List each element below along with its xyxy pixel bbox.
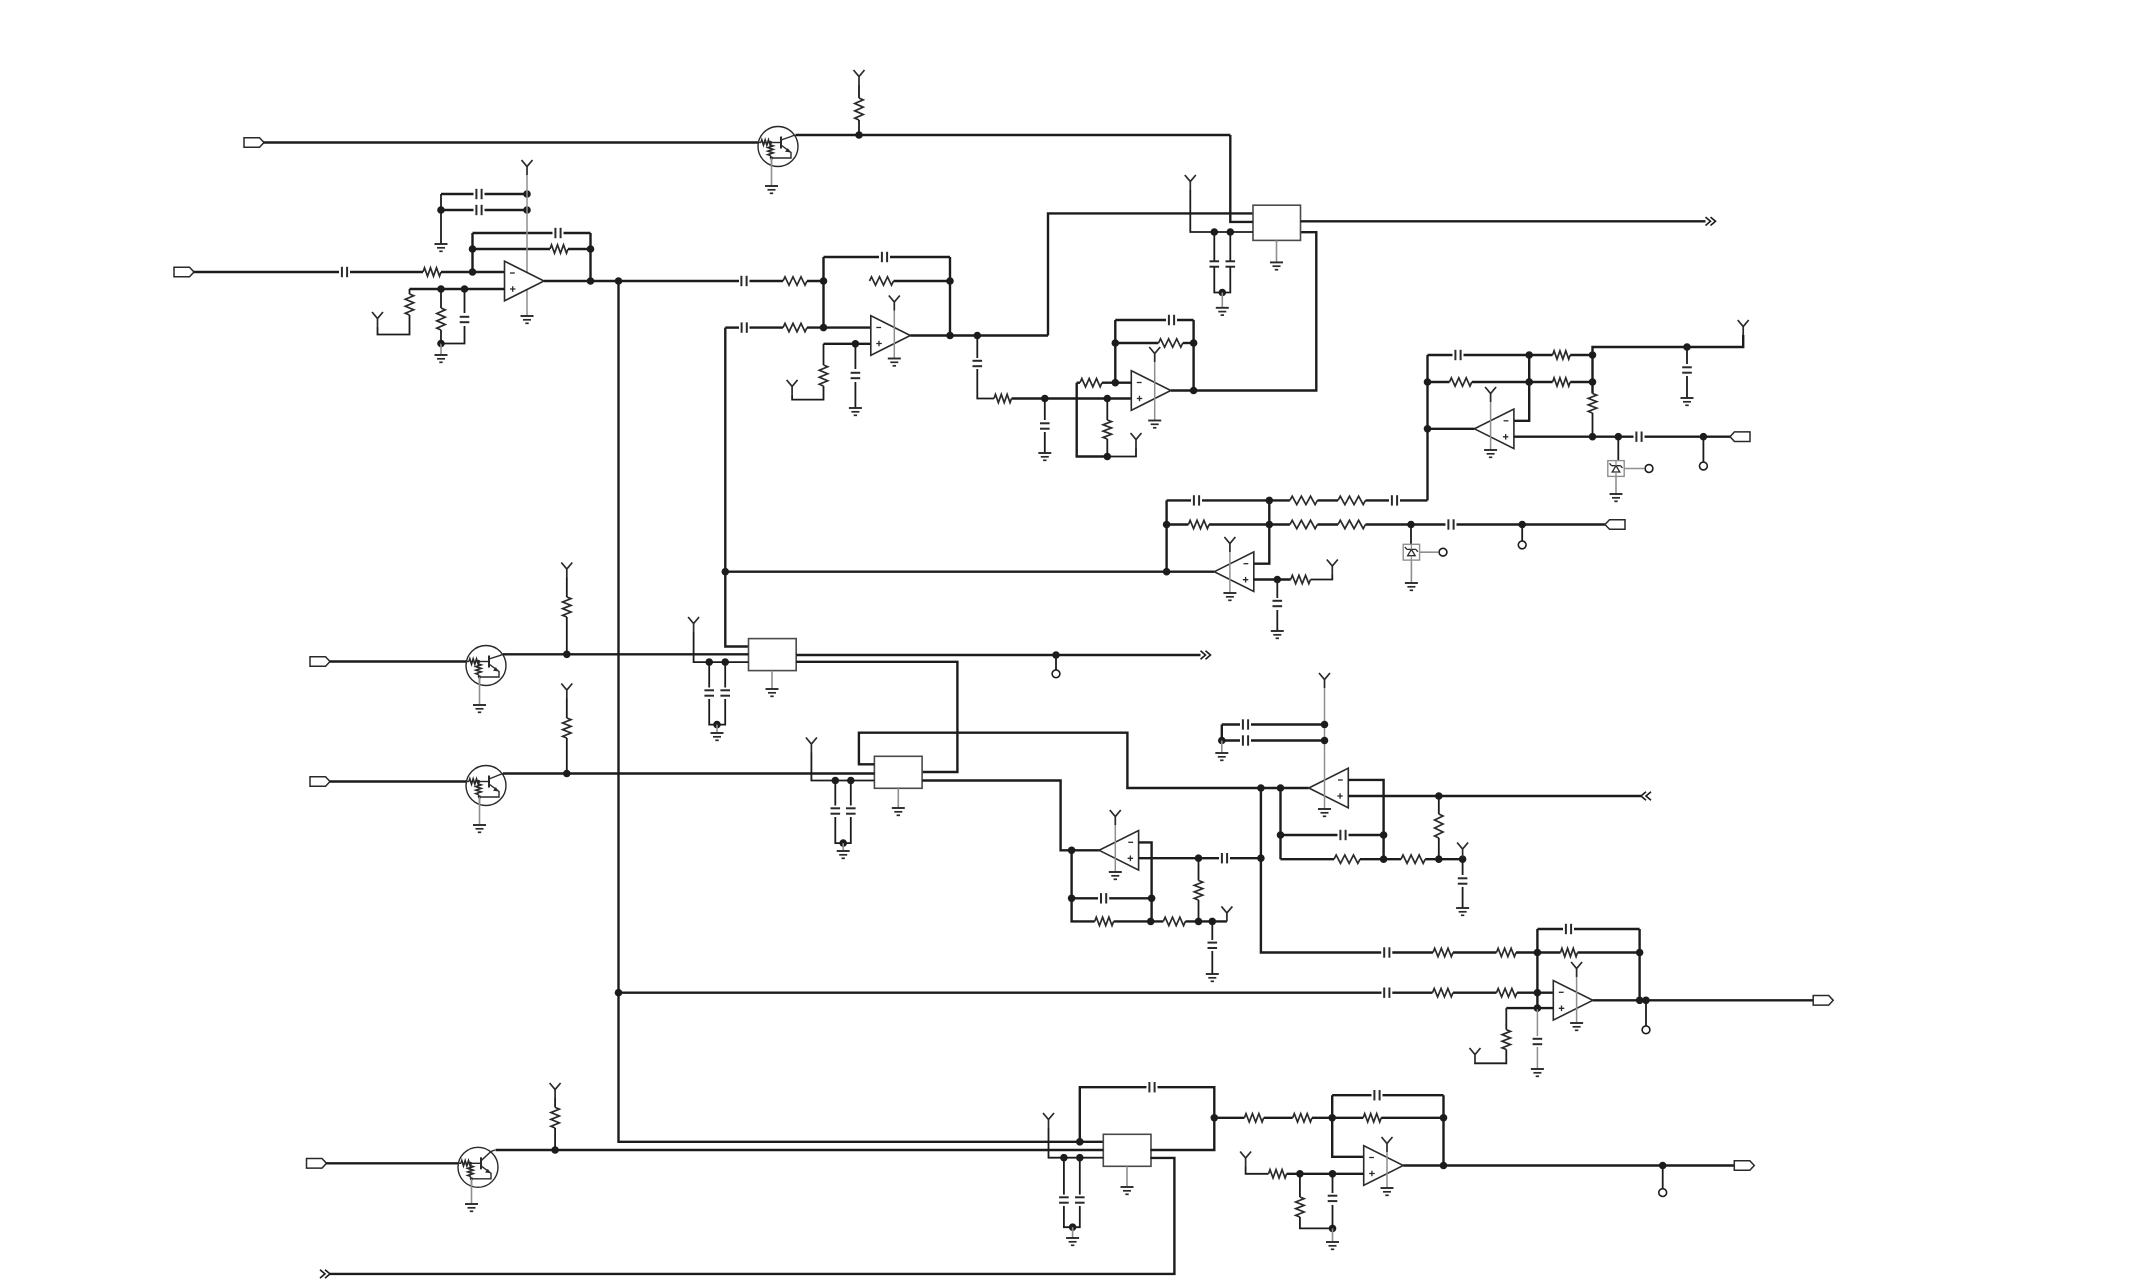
wire C24 to bus	[1230, 857, 1261, 859]
U6 output column down	[1279, 788, 1281, 859]
op-amp U7 (left-facing)	[1099, 831, 1139, 871]
ground D1	[1610, 493, 1623, 495]
wire C6 to R6	[750, 280, 784, 282]
riser from Q1 rail to IC1 pin2	[1230, 135, 1252, 222]
wire Q1 emitter to ground	[771, 158, 773, 186]
U2 plus row	[824, 343, 871, 345]
resistor R27 row	[1384, 858, 1401, 860]
power Y22 column U8	[1571, 962, 1582, 977]
wire J1 to Q1 base	[264, 141, 759, 143]
feedback capacitor C29 row	[1281, 834, 1338, 836]
minus feedback column stage2	[822, 257, 824, 328]
ground C30	[1456, 907, 1469, 909]
node U1 minus	[469, 268, 477, 276]
resistor R2 (series)	[423, 268, 441, 276]
row5 capacitor C18	[1447, 519, 1449, 529]
bias resistor R11 column	[1106, 399, 1108, 421]
op-amp U3	[1131, 371, 1171, 411]
wire C18 to connector J4	[1457, 523, 1606, 525]
U6 plus row to off-page	[1348, 795, 1641, 797]
feedback capacitor C11 row	[1115, 319, 1166, 321]
row4 resistor R16	[1338, 496, 1366, 504]
output column stage9	[1442, 1095, 1444, 1165]
bias capacitor C26 column	[1211, 921, 1213, 940]
row5 resistor R19	[1338, 520, 1366, 528]
power Y23 above R35	[550, 1083, 561, 1098]
ground U3 power	[1148, 420, 1161, 422]
feedback resistor row R3	[473, 248, 551, 250]
wire Y13 to R21	[566, 578, 568, 598]
decoupling capacitor C22	[834, 781, 836, 806]
row4 capacitor C17	[1391, 495, 1393, 505]
connector J7 (output)	[1813, 996, 1833, 1006]
stage5 minus column	[1254, 500, 1270, 563]
U7 minus path	[1139, 842, 1152, 898]
wire D2 to ground	[1410, 560, 1412, 583]
long column U6 out to row M	[1261, 788, 1381, 953]
ground U1 power	[521, 315, 534, 317]
wire Q4 emitter to ground	[471, 1179, 473, 1204]
test point circle D1	[1645, 465, 1653, 473]
ground Q4	[465, 1203, 478, 1205]
decoupling capacitor C36	[1079, 1158, 1081, 1195]
row5 resistor R17	[1167, 523, 1189, 525]
test point column U8	[1645, 1000, 1647, 1025]
row N resistor R32	[1433, 989, 1454, 997]
IC3 box	[874, 756, 922, 788]
row4 resistor R15	[1290, 496, 1318, 504]
wire J6 to Q3 base	[330, 780, 467, 782]
resistor R14 row	[1529, 381, 1552, 383]
riser to IC1 input	[1048, 213, 1253, 335]
bias resistor R40 column	[1299, 1174, 1301, 1197]
bus IC2 pinA from stage2 minus	[725, 572, 748, 647]
test point column U9	[1662, 1166, 1664, 1189]
minus column stage4	[1514, 355, 1529, 421]
row M capacitor C31	[1383, 947, 1385, 957]
bias resistor R9 column	[823, 344, 825, 365]
power Y14 to IC2 supply	[688, 617, 699, 632]
feedback capacitor C38 row stage9	[1332, 1094, 1371, 1096]
wire caps to ground IC4	[1072, 1227, 1074, 1238]
resistor R1 (pull-up)	[855, 98, 863, 120]
row resistor R36	[1214, 1117, 1244, 1119]
column cap C34 to ground	[1536, 1008, 1538, 1036]
resistor R6	[783, 277, 807, 285]
feedback capacitor row C2	[473, 232, 553, 234]
wire R1 to rail	[858, 120, 860, 135]
supply caps C27 C28 rows	[1222, 723, 1240, 725]
wire minus node up to feedback	[471, 233, 473, 272]
row N resistor R33	[1497, 989, 1518, 997]
transistor Q2 (digital npn)	[466, 646, 506, 686]
IC2 box	[749, 639, 797, 671]
power Y16 to IC3 supply	[806, 738, 817, 753]
ground C35/C36	[1066, 1237, 1079, 1239]
U4 output column	[1428, 428, 1475, 430]
IC3 feedback loop to U6 output	[859, 733, 1309, 788]
resistor R10	[994, 394, 1012, 402]
res row stage4	[1428, 381, 1450, 383]
wire R6 to node	[807, 280, 824, 282]
power Y21 (vref)	[1470, 1048, 1481, 1063]
connector J5 (input 3)	[310, 657, 330, 667]
ground U2 power	[888, 358, 901, 360]
bias capacitor C30 column	[1462, 859, 1464, 875]
bias resistor R39	[1269, 1170, 1287, 1178]
connector J1 (top-left input)	[244, 138, 264, 148]
row M resistor R30	[1497, 948, 1517, 956]
op-amp U4 (left-facing)	[1474, 409, 1514, 449]
decoupling capacitor C20	[708, 662, 710, 687]
wire Q3 emitter to ground	[479, 797, 481, 825]
long bus from stage5 output (vertical)	[724, 328, 726, 572]
wire D2 to test point	[1420, 551, 1438, 553]
row4 capacitor C16	[1167, 499, 1191, 501]
U2 output wire	[910, 334, 1048, 336]
link capacitor C9 column	[976, 336, 978, 359]
resistor R13 row	[1529, 354, 1552, 356]
wire J5 to Q2 base	[330, 660, 467, 662]
ground Q2	[473, 704, 486, 706]
power Y20 (vref)	[1457, 843, 1468, 858]
wire caps to ground IC3	[842, 843, 844, 851]
output column stage2	[949, 257, 951, 336]
wire R35 to rail	[554, 1128, 556, 1150]
connector J8 (input 5)	[307, 1159, 327, 1169]
bias capacitor C8 column	[854, 344, 856, 369]
IC1 output wire to off-page	[1301, 220, 1706, 222]
feedback capacitor C7 row	[824, 256, 880, 258]
capacitor C24 (series)	[1221, 853, 1223, 863]
feedback resistor R12 row	[1115, 342, 1158, 344]
test point circle U9	[1659, 1189, 1667, 1197]
ground U8 power	[1570, 1022, 1583, 1024]
left column caps to ground	[1221, 725, 1223, 741]
ground Q3	[473, 824, 486, 826]
wire C1 to R2	[350, 271, 423, 273]
bias capacitor C39 column	[1332, 1174, 1334, 1193]
U6 minus path	[1348, 780, 1383, 859]
power Y8 to IC1 supply rail	[1185, 175, 1196, 190]
IC3 bottom ground stub	[897, 788, 899, 808]
minus column stage9	[1332, 1095, 1364, 1157]
U8 output wire to connector	[1593, 999, 1813, 1001]
IC2 output A to off-page	[796, 654, 1200, 656]
U1 output wire to stage2	[544, 280, 739, 282]
op-amp U9	[1364, 1146, 1404, 1186]
ground C27/C28	[1215, 752, 1228, 754]
output column stage8	[1638, 929, 1640, 1000]
ground D2	[1405, 582, 1418, 584]
decoupling capacitor C21	[724, 662, 726, 687]
row resistor R37	[1293, 1114, 1312, 1122]
U7 plus row	[1139, 857, 1219, 859]
resistor R8	[783, 323, 807, 331]
vref column stage4	[1591, 355, 1593, 394]
power Y5 (vref)	[787, 380, 798, 395]
op-amp U6 (left-facing)	[1309, 768, 1349, 808]
power Y24 to IC4 supply	[1043, 1113, 1054, 1128]
decoupling capacitor C13 column	[1229, 232, 1231, 261]
IC4 bottom ground stub	[1126, 1166, 1128, 1187]
ground C26	[1206, 973, 1219, 975]
IC4 box	[1103, 1134, 1151, 1166]
ground R5	[435, 354, 448, 356]
capacitor C1 (series input)	[341, 267, 343, 277]
power Y11 column U5	[1224, 537, 1235, 552]
wire to ground R5	[440, 344, 442, 356]
ground U6 power	[1318, 808, 1331, 810]
ground IC1	[1270, 261, 1283, 263]
row5 resistor R18	[1290, 520, 1318, 528]
bias resistor R28 column	[1438, 796, 1440, 814]
U1 plus row	[410, 288, 505, 290]
wire C15 to connector J3	[1645, 436, 1731, 438]
connector J4 (output)	[1605, 520, 1625, 530]
wire R21 to rail	[566, 617, 568, 654]
wire Q2 emitter to ground	[479, 677, 481, 705]
U3 output wire + riser to IC1	[1171, 232, 1317, 390]
IC1 bottom ground stub	[1276, 240, 1278, 262]
ground C34	[1531, 1068, 1544, 1070]
ground C12/C13	[1216, 307, 1229, 309]
U8 plus row	[1506, 1007, 1553, 1009]
op-amp U8	[1553, 981, 1593, 1021]
feedback capacitor C25 row	[1072, 897, 1098, 899]
wire Q1 collector rail to IC1 riser	[796, 134, 1231, 136]
ground IC3	[892, 807, 905, 809]
power Y4 column U2	[889, 296, 900, 311]
feedback column U7 left	[1072, 850, 1095, 921]
wire R10 to node	[1012, 397, 1045, 399]
resistor R24 row	[1163, 917, 1185, 925]
test point circle D2	[1439, 548, 1447, 556]
off-page arrow out1	[1706, 217, 1716, 225]
minus row stage2	[725, 326, 739, 328]
wire caps to ground	[1221, 293, 1223, 308]
minus column stage8	[1536, 929, 1538, 1008]
feedback resistor R7	[870, 277, 894, 285]
power Y25 column U9	[1382, 1137, 1393, 1152]
IC1 box (mute switch)	[1253, 205, 1301, 240]
decoupling capacitor C35	[1063, 1158, 1065, 1195]
IC2 bottom ground stub	[771, 671, 773, 689]
test point circle J3	[1700, 462, 1708, 470]
zener D1 in box	[1617, 437, 1619, 461]
test point column J4	[1521, 525, 1523, 541]
power Y2 column through U1	[522, 160, 533, 175]
feedback column stage3	[1114, 320, 1116, 383]
op-amp U1	[505, 261, 545, 301]
wire R22 to rail	[566, 738, 568, 774]
power Y6 (vref)	[1107, 448, 1136, 457]
wire D1 to ground	[1615, 476, 1617, 494]
capacitor C6 (series)	[740, 276, 742, 286]
ground IC4	[1121, 1186, 1134, 1188]
test point circle U8	[1642, 1026, 1650, 1034]
node Q1 collector / R pull-up	[855, 131, 863, 139]
ground C10	[1038, 452, 1051, 454]
ground C22/C23	[837, 850, 850, 852]
U9 plus row	[1246, 1167, 1269, 1174]
left column to ground	[440, 194, 442, 244]
supply caps C3 C4 rows	[441, 193, 474, 195]
decoupling capacitor C14 column	[1686, 347, 1688, 364]
stage5 left column	[1165, 500, 1167, 571]
resistor R22 pull-up	[563, 718, 571, 738]
bias capacitor C5 column	[464, 289, 466, 313]
minus row stage3	[1077, 382, 1080, 384]
bias resistor R34 column	[1505, 1008, 1507, 1030]
supply wire Y9 row stage4	[1738, 320, 1749, 335]
feedback resistor R38 row stage9	[1363, 1114, 1381, 1122]
wire Y15 to R22	[566, 699, 568, 719]
connector J6 (input 4)	[310, 777, 330, 787]
off-page arrow in (left chevrons)	[1641, 792, 1651, 800]
wire Q3 collector to IC3 pin	[503, 772, 874, 774]
feedback right column stage3	[1192, 320, 1194, 391]
ground U4 power	[1484, 449, 1497, 451]
bottom rail from off-page	[320, 1270, 330, 1278]
shunt capacitor C10 column	[1044, 399, 1046, 421]
power Y17 column U7	[1110, 810, 1121, 825]
feedback resistor R23 row	[1095, 917, 1114, 925]
resistor R21 pull-up	[563, 597, 571, 617]
bias resistor R20	[1291, 575, 1311, 583]
wire C39 to ground	[1332, 1228, 1334, 1242]
capacitor C15 (series out)	[1635, 432, 1637, 442]
IC4 feedback loop	[1080, 1087, 1147, 1142]
zener D2 in box	[1410, 525, 1412, 545]
transistor Q1 (digital npn)	[758, 127, 798, 167]
ground U5 power	[1223, 592, 1236, 594]
test point column J3	[1702, 437, 1704, 462]
bias capacitor C19 column	[1276, 580, 1278, 599]
off-page arrow out2	[1201, 651, 1211, 659]
main bus vertical from U1 output	[619, 281, 1104, 1142]
wire J2 to C (series)	[194, 271, 340, 273]
connector J3 (output)	[1730, 432, 1750, 442]
feedback right column	[589, 233, 591, 281]
ground Q1 emitter	[765, 185, 778, 187]
IC2 output B to IC3	[796, 662, 957, 772]
test point circle J4	[1518, 541, 1526, 549]
ground IC2	[766, 688, 779, 690]
power Y18 (vref) at row end	[1221, 906, 1232, 921]
power Y15 above R22	[561, 684, 572, 699]
ground U7 power	[1109, 871, 1122, 873]
op-amp U5 (left-facing)	[1214, 552, 1254, 592]
op-amp U2	[871, 316, 911, 356]
ground C19	[1271, 630, 1284, 632]
U9 output wire	[1403, 1164, 1734, 1166]
row N capacitor C32	[1383, 988, 1385, 998]
power Y12 (vref)	[1327, 560, 1338, 575]
left column to vref loop	[1077, 383, 1108, 457]
power Y3 (vref)	[372, 312, 383, 327]
power Y7 column U3	[1149, 347, 1160, 362]
wire caps to ground IC2	[716, 725, 718, 733]
feedback capacitor C37	[1148, 1082, 1150, 1092]
ground U9 power	[1381, 1187, 1394, 1189]
connector J9 (output)	[1734, 1161, 1754, 1171]
wire Y1 to R1	[858, 85, 860, 98]
transistor Q4 (digital npn)	[458, 1147, 498, 1187]
wire D1 to test point	[1624, 468, 1644, 470]
decoupling capacitor C12 column	[1213, 232, 1215, 261]
bias resistor R5 column	[440, 289, 442, 308]
U4 plus row to output connector	[1514, 436, 1634, 438]
power Y26 (vref)	[1240, 1152, 1251, 1167]
power Y10 column U4	[1485, 387, 1496, 402]
wire Q2 collector to IC2 pinB	[503, 653, 749, 655]
wire R2 to U1 minus	[441, 271, 505, 273]
transistor Q3 (digital npn)	[466, 766, 506, 806]
ground C8	[849, 407, 862, 409]
wire Y23 to R35	[554, 1098, 556, 1107]
row M resistor R31	[1561, 948, 1578, 956]
power Y1 above R1	[854, 70, 865, 85]
ground C3/C4	[435, 243, 448, 245]
row M resistor R29	[1433, 948, 1453, 956]
wire Q4 collector to IC4 pin	[496, 1149, 1104, 1151]
ground C14	[1681, 397, 1694, 399]
power Y13 above R21	[561, 563, 572, 578]
ground C20/C21	[711, 732, 724, 734]
feedback resistor R26 row	[1281, 858, 1335, 860]
decoupling capacitor C23	[850, 781, 852, 806]
resistor R35 pull-up	[551, 1107, 559, 1128]
column minus to res row	[1150, 898, 1152, 921]
long bus row N from main bus	[619, 992, 1382, 994]
U5 output long wire to bus	[725, 571, 1214, 573]
bias resistor R25 column	[1198, 858, 1200, 880]
test point circle IC2	[1052, 670, 1060, 678]
power Y19 column U6	[1319, 673, 1330, 688]
wire J8 to Q4 base	[326, 1162, 458, 1164]
bias resistor R4 column	[409, 289, 411, 294]
IC3 output B to U7 output node	[922, 781, 1099, 851]
wire node to U3 plus	[1045, 397, 1132, 399]
cap feedback row stage4	[1428, 354, 1453, 356]
feedback capacitor C33 row	[1537, 928, 1563, 930]
connector J2 (input 2)	[174, 267, 194, 277]
test point column IC2	[1055, 655, 1057, 670]
ground C39	[1326, 1241, 1339, 1243]
U5 plus row	[1254, 578, 1291, 580]
